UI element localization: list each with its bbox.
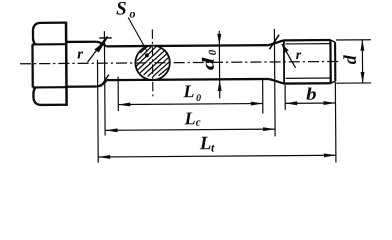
r arrow right bbox=[282, 44, 289, 53]
Lc right extension line bbox=[273, 29, 276, 136]
svg-text:L: L bbox=[184, 108, 196, 128]
Lt left extension line bbox=[96, 60, 99, 163]
hex head face division line upper bbox=[32, 43, 66, 45]
svg-text:0: 0 bbox=[207, 49, 219, 55]
svg-text:0: 0 bbox=[196, 93, 201, 104]
b dimension line bbox=[285, 102, 335, 104]
hole axis vertical centerline bbox=[151, 29, 154, 99]
d bottom extension line bbox=[336, 82, 371, 84]
hex head chamfer arc upper face bbox=[33, 37, 35, 45]
svg-text:d: d bbox=[340, 54, 360, 64]
under-head full-diameter cylinder top bbox=[66, 41, 96, 44]
d0 dimension line bbox=[218, 31, 220, 98]
thread end chamfer vertical bbox=[329, 40, 332, 83]
thread minor diameter top thin line bbox=[285, 43, 330, 45]
svg-text:r: r bbox=[77, 46, 83, 62]
thread section top major line bbox=[284, 39, 331, 42]
svg-text:r: r bbox=[296, 48, 302, 63]
Lc left slash mark bottom bbox=[100, 75, 109, 87]
shank bottom line bbox=[107, 79, 268, 80]
bolt end face bbox=[334, 42, 336, 81]
transition tick bar top bbox=[99, 37, 111, 39]
b left extension line bbox=[284, 85, 286, 110]
r arrow left bbox=[94, 44, 102, 53]
label d rotated bbox=[340, 54, 360, 64]
b arrow right bbox=[323, 101, 335, 105]
S0 leader end dot bbox=[145, 53, 149, 57]
S0 leader line bbox=[128, 17, 147, 52]
d0 arrow bottom bbox=[218, 80, 222, 91]
shank top line bbox=[106, 45, 267, 46]
Lt arrow left bbox=[98, 155, 110, 159]
under-head full-diameter cylinder bottom bbox=[66, 85, 96, 88]
centerline bolt axis bbox=[20, 61, 339, 63]
svg-text:c: c bbox=[196, 117, 201, 129]
thread runout transition bottom bbox=[268, 79, 284, 84]
d dimension line bbox=[361, 40, 363, 83]
svg-text:L: L bbox=[199, 133, 212, 154]
label d0 rotated bbox=[199, 49, 219, 70]
chamfer corner bottom bbox=[331, 81, 336, 83]
section hole circle bbox=[135, 45, 170, 80]
svg-text:b: b bbox=[306, 84, 317, 104]
Lc dimension line bbox=[105, 129, 275, 130]
fillet bottom bbox=[97, 80, 107, 86]
Lt dimension line bbox=[98, 155, 336, 157]
thread section bottom major line bbox=[284, 82, 331, 85]
Lt arrow right bbox=[324, 153, 336, 157]
r leader left bbox=[87, 37, 106, 62]
svg-text:L: L bbox=[182, 81, 194, 101]
thread runout transition top bbox=[268, 40, 284, 45]
b right and Lt right shared extension line bbox=[334, 82, 337, 162]
thread start vertical edge bbox=[283, 40, 285, 83]
hex head face division line lower bbox=[33, 86, 67, 88]
L0 arrow right bbox=[251, 102, 263, 106]
Lc arrow right bbox=[263, 127, 275, 131]
d arrow bottom bbox=[361, 72, 365, 83]
L0 arrow left bbox=[118, 103, 130, 107]
d arrow top bbox=[360, 40, 364, 51]
r leader right bbox=[282, 44, 296, 68]
fillet top full-d to reduced shank bbox=[96, 42, 106, 47]
Lc arrow left bbox=[105, 128, 117, 132]
hatching of section circle bbox=[136, 46, 170, 77]
hex head right face edge bbox=[65, 22, 68, 106]
chamfer corner top bbox=[330, 40, 335, 42]
svg-text:o: o bbox=[129, 6, 135, 20]
svg-text:S: S bbox=[116, 0, 127, 19]
hex head outline bbox=[32, 23, 66, 105]
Lc right slash mark bbox=[269, 35, 279, 50]
L0 dimension line bbox=[118, 104, 262, 105]
b arrow left bbox=[285, 101, 297, 105]
svg-text:d: d bbox=[199, 57, 218, 70]
L0 left extension line bbox=[117, 77, 119, 111]
d0 arrow top bbox=[217, 34, 221, 45]
d top extension line bbox=[336, 39, 371, 41]
Lc left slash mark top bbox=[99, 36, 108, 51]
thread minor diameter bottom thin line bbox=[286, 77, 331, 79]
L0 right extension line bbox=[262, 80, 264, 113]
Lc left extension line bbox=[103, 31, 106, 135]
hex head chamfer arc lower face bbox=[33, 88, 35, 95]
